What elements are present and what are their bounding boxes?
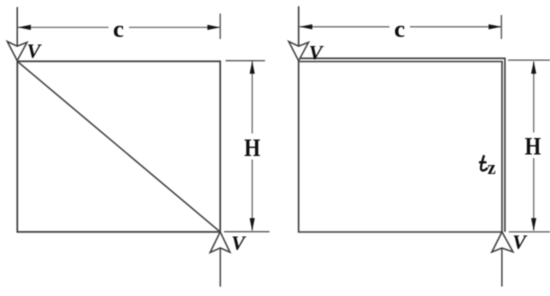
label V bottom-right (right panel) [512,231,528,253]
label c (left) [113,16,124,43]
force arrow V top-left (right panel): shaft [298,6,300,46]
left panel: shear panel square [17,61,220,232]
force arrow V top-left (left panel): open arrowhead pointing down [7,42,27,61]
diagonal tension line (left panel) [17,61,220,232]
dimension c (right): dimension line with arrowheads [300,24,502,29]
dimension H (right): dimension line with arrowheads [531,61,536,231]
svg-text:V: V [309,42,325,64]
label t_z (right panel web thickness) [479,156,496,179]
right panel: outer doubled top and right edge [301,58,505,232]
svg-text:V: V [512,231,528,253]
dimension c (left): dimension line with arrowheads [18,25,220,30]
svg-text:c: c [113,16,124,43]
label c (right) [394,16,405,43]
dimension H (right): extension lines [508,60,550,232]
label H (left) [244,134,260,162]
force arrow V bottom-right (left panel): shaft [219,248,221,287]
force arrow V bottom-right (right panel): shaft [501,248,503,287]
label V top-left (right panel) [309,42,325,64]
dimension H (left): dimension line with arrowheads [250,61,255,231]
svg-text:H: H [525,132,541,160]
label H (right) [525,132,541,160]
svg-text:V: V [27,40,43,62]
svg-text:H: H [244,134,260,162]
force arrow V bottom-right (left panel): open arrowhead pointing up [210,232,230,253]
right panel: plate with thin web, inner square [299,62,502,233]
force arrow V bottom-right (right panel): open arrowhead pointing up [492,232,513,252]
label V top-left (left panel) [27,40,43,62]
svg-text:c: c [394,16,405,43]
svg-text:z: z [488,159,496,179]
dimension H (left): extension lines [224,61,270,232]
force arrow V top-left (right panel): open arrowhead pointing down [289,42,309,61]
label V bottom-right (left panel) [231,232,247,254]
dimension c (left): extension lines [17,7,220,46]
svg-text:V: V [231,232,247,254]
dimension c (right): extension lines [299,6,502,46]
force arrow V top-left (left panel): shaft [16,7,18,46]
